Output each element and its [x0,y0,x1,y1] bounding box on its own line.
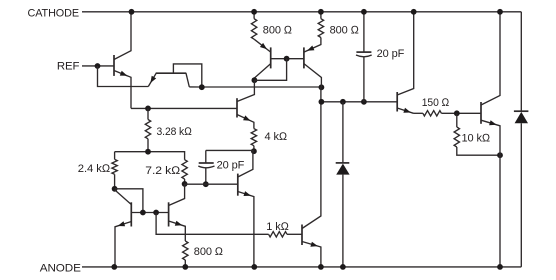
wire: Q6/Q7 base line [131,212,168,214]
transistor Q8 (NPN, gain stage) [237,174,239,196]
node: Q8 emitter on anode rail [251,264,257,270]
svg-text:20 pF: 20 pF [217,159,245,171]
node: D1 top junction [340,99,346,105]
node: Q3 collector / Q5 collector junction [252,77,258,83]
node: R7 on anode rail [182,264,188,270]
node: Q11 emitter junction [497,152,503,158]
resistor R1 800 ohm [253,12,255,19]
node: Q11 base junction [454,110,460,116]
transistor Q11 (NPN, output) [480,102,482,124]
wire: Q1 emitter to Q5 base [131,107,237,109]
svg-text:800 Ω: 800 Ω [263,25,293,37]
transistor Q3 (PNP, mirror left) [270,47,272,68]
wire: REF down and right to Q2 emitter [98,66,149,87]
transistor Q1 (NPN, REF input) [113,55,115,76]
transistor Q6 (NPN, diode-connected) [130,202,132,226]
node: Q9 emitter on anode rail [318,264,324,270]
svg-text:7.2 kΩ: 7.2 kΩ [145,165,181,177]
svg-text:20 pF: 20 pF [377,48,405,60]
resistor R5 2.4 kohm [114,152,116,160]
wire: mirror base node down to R8 [156,213,269,235]
wire: Q3/Q4 base line [271,58,304,60]
node: D1 on anode rail [340,264,346,270]
svg-text:ANODE: ANODE [40,262,81,274]
svg-text:CATHODE: CATHODE [28,7,80,19]
svg-text:REF: REF [57,60,80,72]
wire: divider node line [115,151,184,153]
wire: Q2 collector along bias line [189,86,321,88]
transistor Q4 (PNP, mirror right) [303,47,305,68]
transistor Q7 (NPN) [168,202,170,226]
node: Q6 emitter on anode rail [111,264,117,270]
capacitor C1 20 pF [363,12,365,52]
transistor Q10 (NPN, driver) [396,92,398,112]
node: base line junction right [153,210,159,216]
transistor Q2 (lateral PNP, diode-connected) [156,72,187,74]
wire: ANODE bottom rail [82,266,521,268]
svg-text:4 kΩ: 4 kΩ [265,131,288,143]
resistor R4 4 kohm [251,129,256,146]
node: line start junction [319,99,325,105]
wire: Q7 collector node to Q8 base [185,183,238,185]
node: R4 bottom junction [251,148,257,154]
resistor R10 10 kohm [456,113,458,127]
svg-text:3.28 kΩ: 3.28 kΩ [157,126,193,138]
node: Q11 emitter on anode rail [497,264,503,270]
diode D2 [514,110,529,112]
node: base line junction left [140,210,146,216]
node: top rail junction for Q1 collector [129,9,135,15]
resistor R2 3.28 kohm [147,108,149,119]
svg-text:800 Ω: 800 Ω [330,25,360,37]
resistor R9 150 ohm [414,112,423,114]
wire: Q8 collector node line to Q10 base [321,101,397,103]
svg-text:10 kΩ: 10 kΩ [462,133,491,145]
resistor R6 7.2 kohm [183,152,186,160]
wire: right edge vertical (cathode to anode via D2) [520,12,522,111]
resistor R7 800 ohm [183,241,188,260]
transistor Q9 (NPN, clamp) [301,225,303,246]
svg-text:150 Ω: 150 Ω [422,97,450,109]
resistor R3 800 ohm [320,12,322,19]
wire: REF lead to Q1 base [82,65,114,67]
node: bias line end at Q8 collector [319,84,325,90]
wire: CATHODE top rail [82,11,521,13]
diode D1 [342,102,344,163]
node: C1 bottom junction [361,99,367,105]
svg-text:1 kΩ: 1 kΩ [266,221,289,233]
resistor R8 1 kohm [269,232,287,237]
node: REF junction [95,63,101,69]
transistor Q5 (NPN, second stage) [236,98,238,117]
node: R6 bottom / Q7 collector junction [182,181,188,187]
svg-text:2.4 kΩ: 2.4 kΩ [78,163,111,175]
capacitor C2 20 pF [206,149,254,151]
node: R2 bottom junction [145,149,151,155]
node: Q2 base-collector tie [199,84,205,90]
svg-text:800 Ω: 800 Ω [194,246,224,258]
wire: base tie down to Q3 collector [254,59,286,81]
node: R2 top junction [145,106,151,112]
node: C2 bottom junction [203,181,209,187]
node: base line junction [284,56,290,62]
node: R5 bottom / Q6 collector junction [112,186,118,192]
